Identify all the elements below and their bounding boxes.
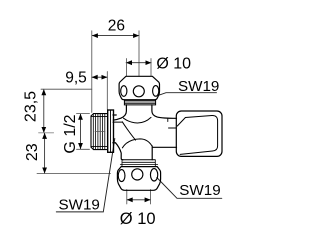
extension line right of 9,5 [106,72,108,110]
svg-text:Ø 10: Ø 10 [120,210,156,228]
dimension G 1/2 line [80,114,82,149]
bottom nut center facet circle [132,169,143,180]
top collar under nut [124,100,155,105]
extension line centerline right of 26 [138,31,140,76]
label SW19 top right leader [159,93,217,96]
handle outer outline [176,111,222,156]
extension line left of 26 and 9,5 [91,31,93,113]
saddle curve between tube flares [124,117,152,123]
svg-text:SW19: SW19 [59,196,100,213]
lower ball left contour [116,143,124,160]
dimension 9,5 text [65,69,87,86]
dimension 23 text (rotated) [24,143,41,161]
svg-text:9,5: 9,5 [65,69,87,86]
dimension 23 line [44,133,46,173]
top nut left facet ellipse [121,86,127,97]
lower ball dome [122,139,152,148]
extension lines of G 1/2 [77,113,90,115]
G 1/2 thread body [91,114,108,150]
left branch inner top line [113,121,122,123]
bottom nut right facet ellipse [150,169,157,181]
dimension diameter 10 top text [156,56,191,73]
dimension G 1/2 text (rotated) [62,114,79,153]
right branch bottom edge [153,146,177,148]
label SW19 bottom left leader [56,139,115,212]
top nut right facet ellipse [153,86,159,97]
thread crest vertical lines [92,114,94,149]
top union nut body [119,76,159,99]
extension line top of 23,5 [41,88,92,90]
extension lines of diameter 10 bottom [126,190,128,205]
thread root lines [92,116,108,118]
vertical tube right edge with flare to right branch [152,105,177,118]
dimension diameter 10 bottom line [127,199,151,201]
handle inner bevel contour [177,115,217,154]
thread axis tick [95,131,105,133]
svg-text:SW19: SW19 [179,182,220,199]
svg-text:23,5: 23,5 [22,91,39,122]
svg-text:Ø 10: Ø 10 [156,56,191,73]
extension line shared 23,5 / 23 [39,132,54,134]
extension line bottom of 23 [37,173,111,175]
top nut center facet circle [133,86,144,97]
dimension 9,5 line [92,76,108,78]
dimension 23,5 text (rotated) [22,91,39,122]
bottom nut left facet ellipse [118,170,125,182]
svg-text:23: 23 [24,143,41,161]
dimension 23,5 line [43,89,45,132]
hex flange behind thread [108,110,114,152]
bonnet inner line [169,127,177,129]
dimension 26 line [92,35,139,37]
left branch top edge stub [113,114,116,116]
label SW19 right leader [157,178,222,199]
extension lines of diameter 10 top [125,59,127,76]
dimension 26 text [108,17,125,34]
left branch bottom edge [113,142,116,144]
lower ball right corner edge [151,146,153,160]
dimension diameter 10 bottom text [120,210,156,228]
dimension diameter 10 top line [126,62,151,64]
upper ball lower-left diagonal [122,122,135,140]
label SW19 bottom left text [59,196,100,213]
bottom collar above nut [123,159,156,161]
right branch step tick [167,118,169,121]
vertical tube left edge with flare to left branch [113,105,126,120]
svg-text:26: 26 [108,17,125,34]
label SW19 top right text [178,78,219,95]
label SW19 right text [179,182,220,199]
svg-text:G 1/2: G 1/2 [62,114,79,153]
bottom union nut body [117,167,160,191]
